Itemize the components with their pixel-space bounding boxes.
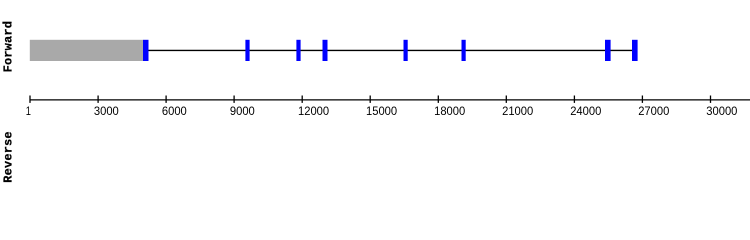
exon 3	[296, 40, 300, 61]
tick 3000	[97, 96, 99, 103]
svg-text:9000: 9000	[230, 104, 255, 118]
svg-text:Reverse: Reverse	[2, 131, 16, 182]
tick 27000	[641, 96, 643, 103]
tick 18000	[437, 96, 439, 103]
exon 5	[404, 40, 408, 61]
svg-text:15000: 15000	[366, 104, 397, 118]
svg-text:18000: 18000	[434, 104, 465, 118]
intron line	[149, 49, 633, 51]
forward strand label	[2, 21, 16, 72]
svg-text:27000: 27000	[638, 104, 669, 118]
svg-text:12000: 12000	[298, 104, 329, 118]
exon 7	[605, 40, 611, 61]
ruler axis line	[30, 99, 750, 101]
exon 8	[632, 40, 638, 61]
svg-text:30000: 30000	[706, 104, 737, 118]
gene model: 5' UTR gray box	[30, 40, 143, 61]
tick 12000	[301, 96, 303, 103]
svg-text:21000: 21000	[502, 104, 533, 118]
reverse strand label	[2, 131, 16, 182]
svg-text:1: 1	[26, 104, 31, 118]
tick 21000	[505, 96, 507, 103]
tick 1	[29, 96, 31, 103]
exon 6	[462, 40, 466, 61]
svg-text:24000: 24000	[570, 104, 601, 118]
exon 2	[245, 40, 249, 61]
svg-text:3000: 3000	[94, 104, 119, 118]
tick 6000	[165, 96, 167, 103]
tick 9000	[233, 96, 235, 103]
exon 4	[323, 40, 328, 61]
tick 24000	[573, 96, 575, 103]
tick 30000	[710, 96, 712, 103]
svg-text:6000: 6000	[162, 104, 187, 118]
tick 15000	[369, 96, 371, 103]
exon 1	[143, 40, 149, 61]
svg-text:Forward: Forward	[2, 21, 16, 72]
